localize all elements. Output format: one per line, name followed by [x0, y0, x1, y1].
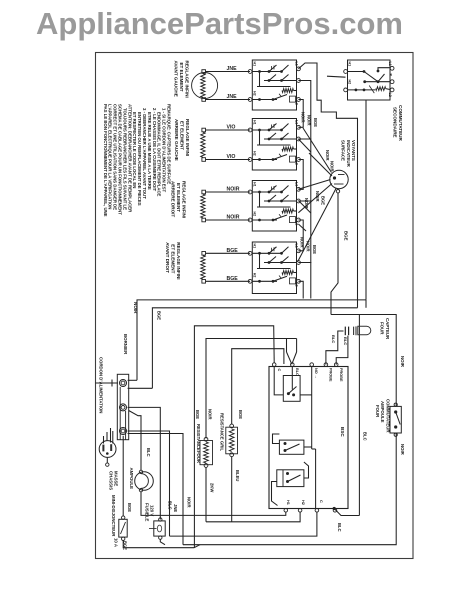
svg-text:FUSIBLE: FUSIBLE	[144, 503, 149, 522]
mini disjoncteur	[119, 519, 127, 537]
svg-text:H1: H1	[253, 182, 257, 187]
svg-text:H1: H1	[348, 62, 352, 67]
svg-text:L1: L1	[388, 62, 392, 66]
svg-text:NOIR: NOIR	[306, 241, 311, 251]
relay 2	[277, 470, 304, 487]
wire BGE top to switch	[206, 252, 251, 254]
resistance four	[200, 441, 213, 465]
surface element E4 (BGE)	[201, 256, 205, 280]
svg-text:AMPOULE: AMPOULE	[129, 468, 134, 490]
svg-text:H2: H2	[253, 212, 257, 217]
svg-text:H1: H1	[253, 62, 257, 67]
svg-text:JNE: JNE	[173, 504, 178, 512]
infinite switch block S1	[252, 60, 296, 110]
svg-text:H2: H2	[253, 91, 257, 96]
bus BGE to C terminal	[194, 326, 274, 548]
wires inside top	[274, 367, 283, 395]
wire four bottom	[205, 467, 207, 521]
svg-text:FOUR: FOUR	[380, 322, 385, 335]
wire B4 P to bus	[298, 263, 310, 299]
frame border	[96, 53, 414, 559]
top terminals	[272, 363, 276, 367]
svg-text:GRIL: GRIL	[219, 441, 224, 451]
svg-text:BORNIER: BORNIER	[123, 334, 128, 355]
svg-text:BGE: BGE	[312, 245, 317, 254]
svg-text:C: C	[319, 500, 323, 503]
svg-text:CAPTEUR: CAPTEUR	[385, 318, 390, 340]
svg-text:CHASSIS: CHASSIS	[108, 471, 113, 490]
commutateur secondaire block	[348, 60, 391, 100]
svg-text:BGE: BGE	[227, 248, 239, 254]
wire JNE top to switch	[206, 71, 251, 73]
wire B4 L2 to bus	[298, 281, 303, 298]
svg-text:FOUR: FOUR	[196, 451, 201, 463]
svg-text:NOIR: NOIR	[207, 409, 212, 419]
svg-text:COMMUTATEUR: COMMUTATEUR	[398, 105, 403, 141]
BLC wire from box	[334, 509, 359, 516]
svg-text:L2: L2	[294, 282, 298, 286]
bus B NOIR	[183, 434, 396, 545]
wire fuse bottom	[160, 539, 165, 544]
svg-text:NOIR: NOIR	[315, 191, 320, 201]
wire fan to pilot	[303, 128, 332, 173]
bottom terminals	[284, 509, 288, 513]
svg-text:AVANT DROIT: AVANT DROIT	[165, 242, 170, 273]
capteur four sensor	[344, 327, 346, 336]
svg-text:NOIR: NOIR	[400, 444, 405, 456]
svg-text:H2: H2	[253, 151, 257, 156]
svg-text:ET ELEMENT: ET ELEMENT	[171, 244, 176, 273]
svg-text:120 V: 120 V	[150, 505, 155, 516]
svg-text:BLC: BLC	[363, 432, 368, 441]
svg-text:PROBE: PROBE	[339, 368, 343, 382]
svg-text:BGE: BGE	[344, 231, 349, 241]
svg-text:BLC: BLC	[337, 523, 342, 532]
svg-text:SURFACE: SURFACE	[341, 140, 346, 161]
svg-text:ET ELEMENT: ET ELEMENT	[176, 183, 181, 212]
wire NOIR bottom to switch	[206, 219, 251, 221]
svg-text:NOIR: NOIR	[304, 198, 309, 208]
svg-text:BLO: BLO	[295, 368, 299, 376]
link verticals	[365, 300, 367, 308]
wire steps between blocks col A	[298, 100, 303, 128]
relay 1	[279, 440, 304, 454]
svg-text:REGLAGE INFINI: REGLAGE INFINI	[176, 242, 181, 279]
svg-text:FOUR: FOUR	[375, 405, 380, 418]
svg-text:REGLAGE INFINI: REGLAGE INFINI	[185, 119, 190, 156]
svg-text:NOIR: NOIR	[227, 187, 240, 193]
wire B1 L1 staircase	[298, 63, 357, 308]
svg-text:BGE: BGE	[313, 118, 318, 127]
control box BSC	[269, 367, 348, 509]
svg-text:H2: H2	[253, 273, 257, 278]
pilot light VOYANT INDICATEUR SURFACE	[330, 170, 348, 188]
svg-text:VIO: VIO	[227, 125, 236, 131]
svg-text:10 A: 10 A	[114, 538, 119, 547]
svg-text:BGE: BGE	[227, 276, 239, 282]
infinite switch block S4	[252, 242, 296, 294]
wire secondaire down	[365, 100, 367, 300]
svg-text:COMMUTATEUR: COMMUTATEUR	[386, 399, 391, 433]
svg-text:ARRIERE GAUCHE: ARRIERE GAUCHE	[174, 119, 179, 161]
sub relay box top	[283, 376, 300, 402]
svg-text:AVANT GAUCHE: AVANT GAUCHE	[174, 61, 179, 97]
svg-text:BGE: BGE	[127, 503, 132, 512]
svg-text:BLEU: BLEU	[235, 470, 240, 481]
bus to ampoule switch NOIR	[331, 315, 396, 407]
wire gril bottom	[231, 457, 233, 522]
svg-text:JNE: JNE	[227, 94, 238, 100]
wiper lead arrow	[327, 76, 346, 77]
svg-text:H2: H2	[301, 500, 305, 505]
svg-text:NOIR: NOIR	[133, 302, 138, 314]
bus BGE upper	[152, 308, 357, 389]
bornier wires right	[128, 379, 137, 381]
svg-text:BGE: BGE	[195, 410, 200, 419]
svg-text:VIO: VIO	[227, 154, 236, 160]
wire NOIR top to switch	[206, 191, 251, 193]
svg-text:AMPOULE: AMPOULE	[380, 401, 385, 423]
svg-text:MINI-DISJONCTEUR: MINI-DISJONCTEUR	[111, 495, 116, 537]
surface element E2 (VIO)	[201, 132, 205, 157]
svg-text:BLC: BLC	[343, 337, 348, 345]
svg-text:NO →: NO →	[314, 368, 318, 379]
svg-text:ET ELEMENT: ET ELEMENT	[180, 121, 185, 150]
wire steps between blocks col B	[298, 81, 310, 140]
svg-text:NOIR: NOIR	[300, 237, 305, 247]
svg-text:BSC: BSC	[340, 427, 345, 437]
commutateur ampoule four	[390, 406, 401, 433]
svg-text:SECONDAIRE: SECONDAIRE	[392, 107, 397, 138]
ampoule lamp	[135, 472, 154, 491]
wire VIO bottom to switch	[206, 159, 251, 161]
wire gril top	[232, 349, 284, 424]
svg-text:C: C	[277, 369, 281, 372]
svg-text:H1: H1	[253, 120, 257, 125]
svg-text:H2: H2	[348, 80, 352, 85]
bus NOIR to BLO	[206, 339, 297, 439]
svg-text:H1: H1	[253, 244, 257, 249]
infinite switch block S2	[252, 119, 296, 171]
wire to lamp	[129, 411, 141, 471]
svg-text:NOIR: NOIR	[330, 161, 335, 171]
svg-text:ET ELEMENT: ET ELEMENT	[179, 63, 184, 92]
svg-text:L2: L2	[294, 161, 298, 165]
svg-text:JNE: JNE	[227, 66, 238, 72]
svg-text:L1: L1	[294, 62, 298, 66]
svg-text:H1: H1	[286, 500, 290, 505]
bus BLEU to H2	[206, 512, 300, 522]
svg-text:BLC: BLC	[146, 448, 151, 457]
svg-text:NOIR: NOIR	[325, 150, 330, 160]
svg-text:BGE: BGE	[157, 311, 162, 320]
wire VIO top to switch	[206, 129, 251, 131]
wire pilot down	[331, 193, 338, 315]
wire JNE bottom to switch	[206, 99, 251, 101]
svg-text:REGLAGE INFINI: REGLAGE INFINI	[182, 181, 187, 218]
svg-text:ARRIERE DROIT: ARRIERE DROIT	[171, 181, 176, 217]
svg-text:NOIR: NOIR	[227, 215, 240, 221]
svg-text:RESISTANCE: RESISTANCE	[219, 413, 224, 440]
surface element E1 (JNE)	[192, 73, 218, 99]
resistance gril	[226, 427, 238, 454]
svg-text:BLC: BLC	[331, 335, 336, 343]
wire BLC vertical	[358, 315, 360, 516]
svg-text:2KW: 2KW	[210, 483, 215, 492]
svg-text:PAS LE BON FONCTIONNEMENT DE L: PAS LE BON FONCTIONNEMENT DE L’APPAREIL,…	[103, 104, 108, 217]
svg-text:L2: L2	[388, 93, 392, 97]
fusible	[154, 521, 165, 536]
surface element E3 (NOIR)	[201, 194, 205, 218]
svg-text:L2: L2	[294, 221, 298, 225]
svg-text:L1: L1	[294, 120, 298, 124]
svg-text:BGE: BGE	[238, 410, 243, 419]
svg-text:BLC: BLC	[167, 501, 172, 510]
wire BGE bottom to switch	[206, 280, 251, 282]
bornier block	[117, 374, 128, 439]
svg-text:L1: L1	[294, 244, 298, 248]
svg-text:NOIR: NOIR	[187, 497, 192, 507]
svg-text:CORDON D’ALIMENTATION: CORDON D’ALIMENTATION	[99, 357, 104, 413]
neutral stub	[96, 382, 119, 384]
wire breaker bottom	[123, 541, 200, 548]
infinite switch block S3	[252, 181, 296, 232]
wires capteur to probe terminals	[326, 331, 344, 365]
wire lamp bottom	[141, 492, 286, 516]
svg-text:L1: L1	[294, 182, 298, 186]
svg-text:BGE: BGE	[321, 196, 326, 205]
bus NOIR upper	[137, 300, 366, 380]
svg-text:AppliancePartsPros.com: AppliancePartsPros.com	[36, 6, 403, 41]
svg-text:PROBE: PROBE	[329, 368, 333, 382]
svg-text:NOIR: NOIR	[301, 112, 306, 122]
svg-text:NOIR: NOIR	[307, 115, 312, 125]
masse chassis plug	[99, 441, 116, 458]
svg-text:REGLAGE INFINI: REGLAGE INFINI	[185, 61, 190, 98]
svg-text:RESISTANCE: RESISTANCE	[196, 424, 201, 451]
svg-text:L2: L2	[294, 101, 298, 105]
bus A JNE	[170, 512, 317, 536]
svg-text:NOIR: NOIR	[400, 356, 405, 368]
